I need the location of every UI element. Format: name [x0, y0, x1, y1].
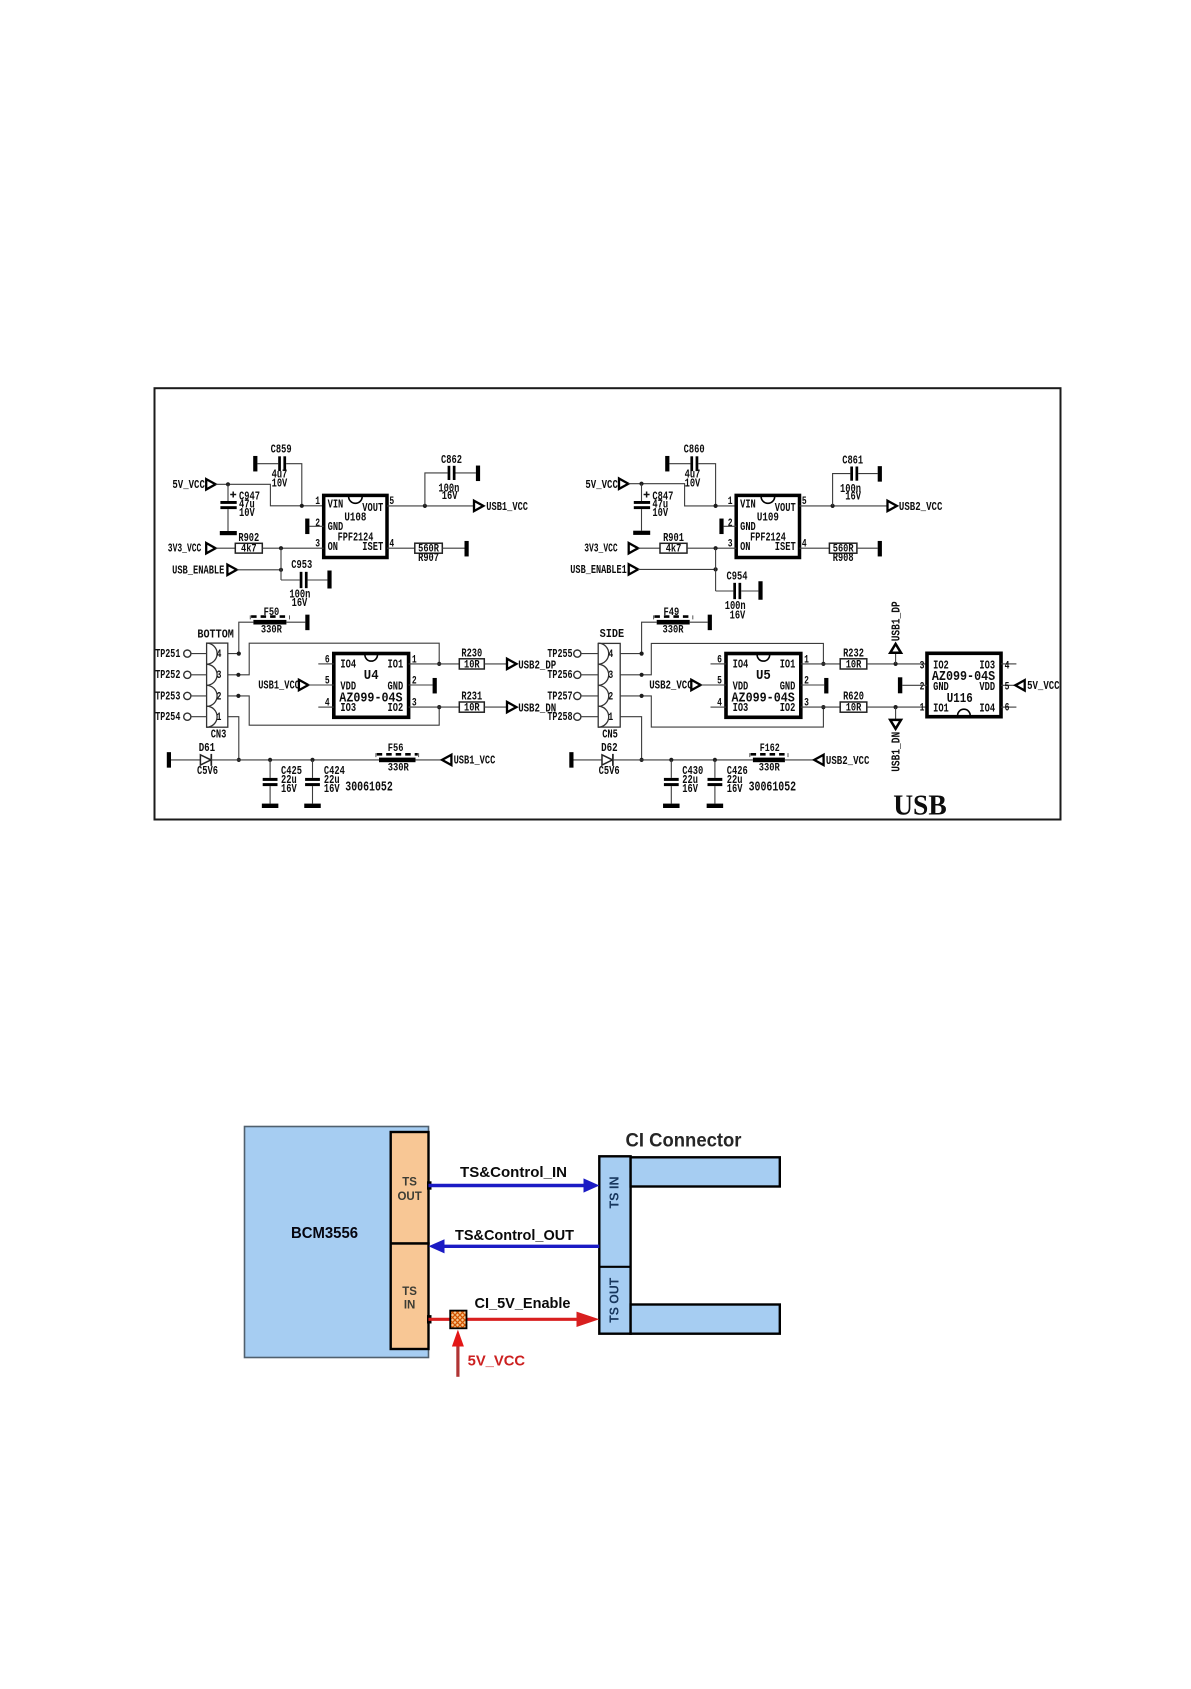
block BCM3556	[245, 1127, 429, 1358]
wire node to C954	[715, 548, 717, 591]
ground at D61 anode	[167, 752, 171, 768]
svg-text:3: 3	[608, 670, 613, 682]
ground for U4 pin 2	[409, 684, 433, 686]
output port USB1_VCC (regulator)	[474, 501, 483, 511]
svg-text:2: 2	[804, 676, 809, 688]
svg-text:USB2_VCC: USB2_VCC	[649, 679, 693, 693]
wire U5 IO2 to R620	[801, 706, 840, 708]
svg-text:16V: 16V	[727, 782, 743, 796]
svg-text:30061052: 30061052	[345, 780, 393, 796]
arrow port USB1_DN (down)	[890, 720, 901, 729]
capacitor C860 4u7 10V	[665, 456, 669, 472]
svg-text:6: 6	[717, 654, 722, 666]
svg-text:TS&Control_IN: TS&Control_IN	[460, 1164, 567, 1181]
pin stub 6 (U116 IO4)	[1001, 706, 1016, 708]
CI connector vertical bar	[599, 1156, 630, 1333]
wire CN5 pin 3 to U5 IO1 net (USB D+ loop)	[620, 643, 823, 674]
svg-text:2: 2	[315, 518, 320, 530]
svg-text:ON: ON	[740, 540, 750, 554]
svg-text:10V: 10V	[272, 477, 288, 491]
svg-text:C5V6: C5V6	[197, 765, 218, 778]
ground for U108 pin 2	[305, 519, 309, 535]
svg-text:330R: 330R	[663, 624, 684, 636]
svg-text:10V: 10V	[685, 477, 701, 491]
svg-text:2: 2	[920, 682, 925, 694]
junction node VOUT / C862	[423, 504, 427, 508]
svg-text:C860: C860	[684, 443, 705, 457]
pin number 5 (U116 VDD)	[1001, 684, 1015, 686]
svg-text:5V_VCC: 5V_VCC	[585, 478, 618, 492]
junction node USB_ENABLE / C953	[279, 568, 283, 572]
svg-text:C954: C954	[727, 570, 748, 584]
wire R908 to ground	[857, 547, 878, 549]
wire CN5 pin 4 to fuse F49	[620, 622, 657, 653]
svg-text:2: 2	[412, 676, 417, 688]
svg-text:TP257: TP257	[547, 689, 572, 703]
svg-text:5V_VCC: 5V_VCC	[1027, 679, 1060, 693]
svg-text:3V3_VCC: 3V3_VCC	[168, 542, 202, 556]
wire CI_5V_Enable (red)	[429, 1318, 579, 1321]
svg-text:4: 4	[717, 698, 722, 710]
svg-text:4k7: 4k7	[666, 544, 682, 556]
output port USB2_VCC (regulator)	[888, 501, 897, 511]
svg-text:16V: 16V	[682, 782, 698, 796]
junction node U5 IO2 / R620	[821, 705, 825, 709]
svg-text:6: 6	[325, 654, 330, 666]
input port USB2_VCC (rail)	[814, 755, 823, 765]
svg-text:IO1: IO1	[388, 658, 404, 672]
svg-text:3V3_VCC: 3V3_VCC	[584, 542, 618, 556]
svg-text:IO4: IO4	[340, 658, 356, 672]
svg-text:TP258: TP258	[547, 710, 572, 724]
capacitor C954 100n 16V	[716, 590, 734, 592]
junction node U5 IO1 / R232	[821, 662, 825, 666]
wire CN3 pin 1 to D61 rail	[228, 717, 239, 760]
svg-text:30061052: 30061052	[749, 780, 797, 796]
wire CN3 pin 2 to U4 IO2 net (USB D- loop)	[228, 696, 439, 725]
svg-text:ON: ON	[328, 540, 338, 554]
svg-text:C953: C953	[291, 558, 312, 572]
wire CN5 pin 1 to D62 rail	[620, 717, 641, 760]
pin stub 4 (U5 IO3)	[711, 706, 727, 708]
svg-text:10R: 10R	[846, 703, 862, 715]
ground at D62 anode	[569, 752, 573, 768]
CI connector bar divider	[599, 1266, 630, 1268]
wire F56 to USB1_VCC port	[416, 759, 443, 761]
block TS OUT port of BCM3556	[391, 1132, 429, 1244]
svg-text:USB_ENABLE1: USB_ENABLE1	[570, 563, 627, 577]
svg-text:CN3: CN3	[211, 727, 227, 741]
svg-text:16V: 16V	[442, 489, 458, 503]
pin stub 4 (U4 IO3)	[318, 706, 334, 708]
svg-text:16V: 16V	[845, 490, 861, 504]
ground for U5 pin 2	[801, 684, 824, 686]
capacitor C426 22u 16V	[713, 758, 717, 762]
junction node CN3 pin 4	[237, 652, 241, 656]
svg-text:4: 4	[1005, 661, 1010, 673]
wire 3V3_VCC to R902	[216, 547, 236, 549]
wire R232 to U116 pin 3	[867, 663, 927, 665]
junction node ON / enable (right)	[714, 546, 718, 550]
connector CN5 (USB side)	[598, 643, 620, 727]
pin nub TS OUT (BCM side)	[427, 1181, 432, 1189]
wire CN3 pin 4 to fuse F50	[228, 622, 254, 653]
wire junction to USB1_DP arrow	[895, 653, 897, 664]
svg-text:16V: 16V	[730, 609, 746, 623]
junction node 5V_VCC / C847	[639, 482, 643, 486]
ground for U116 pin 2	[898, 677, 902, 693]
svg-text:2: 2	[217, 691, 222, 703]
capacitor C862 100n 16V	[425, 473, 448, 506]
svg-text:10R: 10R	[846, 659, 862, 671]
svg-text:IO4: IO4	[979, 701, 995, 715]
svg-text:TS&Control_OUT: TS&Control_OUT	[455, 1227, 574, 1244]
svg-text:ISET: ISET	[362, 540, 383, 554]
svg-text:U108: U108	[344, 510, 366, 524]
svg-text:D62: D62	[601, 742, 618, 755]
svg-text:16V: 16V	[292, 596, 308, 610]
svg-text:1: 1	[608, 712, 613, 724]
svg-text:3: 3	[412, 698, 417, 710]
fuse F50 330R	[253, 620, 286, 625]
svg-text:USB1_DP: USB1_DP	[889, 601, 903, 641]
wire D62 rail to fuse F162	[613, 759, 753, 761]
resistor R901 4k7	[660, 543, 687, 553]
jumper pad (hatched square)	[450, 1311, 466, 1329]
svg-text:TP254: TP254	[155, 710, 181, 724]
resistor R907 560R	[415, 543, 443, 553]
svg-text:TP253: TP253	[155, 689, 180, 703]
svg-text:330R: 330R	[759, 762, 780, 774]
svg-text:D61: D61	[199, 742, 216, 755]
svg-text:10V: 10V	[239, 506, 255, 520]
ground after F50	[305, 615, 309, 631]
svg-text:IO1: IO1	[780, 658, 796, 672]
resistor R908 560R	[829, 543, 857, 553]
svg-text:3: 3	[920, 661, 925, 673]
resistor R902 4k7	[235, 543, 262, 553]
ESD array U5 AZ099-04S	[726, 654, 801, 718]
svg-text:4k7: 4k7	[241, 544, 257, 556]
wire U108 ISET to R907	[387, 547, 415, 549]
pin nub TS IN (BCM side)	[427, 1315, 432, 1323]
svg-text:ISET: ISET	[775, 540, 796, 554]
svg-text:R901: R901	[663, 532, 684, 545]
capacitor C947 47u 10V	[227, 484, 229, 501]
svg-text:5V_VCC: 5V_VCC	[172, 478, 205, 492]
junction node rail / CN3 pin 1	[237, 758, 241, 762]
ground after R908	[878, 541, 882, 557]
wire R901 to U109 ON	[687, 547, 736, 549]
arrow TS&Control_OUT	[443, 1245, 599, 1248]
wire CN3 pin 3 to U4 IO1 net (USB D+ loop)	[228, 643, 439, 675]
wire U108 VOUT to USB1_VCC port	[387, 505, 474, 507]
svg-text:5: 5	[1005, 682, 1010, 694]
arrow TS&Control_IN	[429, 1184, 586, 1187]
svg-text:3: 3	[217, 670, 222, 682]
junction node USB_ENABLE1 / C954	[714, 567, 718, 571]
svg-text:16V: 16V	[281, 782, 297, 796]
resistor R230 10R	[459, 659, 484, 669]
wire U109 VOUT to USB2_VCC port	[800, 505, 888, 507]
svg-text:330R: 330R	[388, 762, 409, 774]
capacitor C953 100n 16V	[281, 579, 300, 581]
junction node CN3 pin 2	[236, 694, 240, 698]
svg-text:IO2: IO2	[388, 701, 404, 715]
svg-text:USB_ENABLE: USB_ENABLE	[172, 564, 224, 578]
svg-text:6: 6	[1005, 702, 1010, 714]
svg-text:F162: F162	[760, 743, 780, 755]
junction node VOUT / C861	[831, 504, 835, 508]
svg-text:U116: U116	[947, 691, 973, 707]
capacitor C430 22u 16V	[669, 758, 673, 762]
svg-text:VIN: VIN	[740, 497, 756, 511]
svg-text:1: 1	[920, 702, 925, 714]
svg-text:USB1_VCC: USB1_VCC	[258, 679, 300, 693]
svg-text:4: 4	[608, 649, 613, 661]
svg-text:F56: F56	[388, 743, 404, 755]
ground after F49	[708, 615, 712, 631]
output port USB2_DP	[507, 659, 516, 669]
capacitor C861 100n 16V	[833, 474, 851, 506]
ground for U109 pin 2	[719, 519, 723, 535]
junction node 5V_VCC / C947	[226, 482, 230, 486]
svg-text:10R: 10R	[464, 659, 480, 671]
capacitor C424 22u 16V	[310, 758, 314, 762]
CI connector bottom arm	[631, 1305, 780, 1334]
svg-text:1: 1	[315, 496, 320, 508]
svg-text:VDD: VDD	[979, 680, 995, 694]
svg-text:F50: F50	[264, 607, 280, 619]
svg-text:1: 1	[728, 496, 733, 508]
wire F162 to USB2_VCC port	[785, 759, 814, 761]
ESD array U116 AZ099-04S	[927, 653, 1001, 716]
input port USB1_VCC (rail)	[442, 755, 451, 765]
capacitor C859 4u7 10V	[253, 456, 257, 472]
wire node to C953	[280, 548, 282, 580]
svg-text:1: 1	[804, 654, 809, 666]
fuse F56 330R	[379, 758, 416, 763]
svg-text:USB1_DN: USB1_DN	[889, 732, 903, 772]
wire F50 to ground	[286, 621, 305, 623]
svg-text:C862: C862	[441, 453, 462, 467]
svg-text:TS IN: TS IN	[608, 1177, 622, 1209]
wire U4 IO1 to R230	[409, 663, 460, 665]
junction node C860 / VIN	[714, 504, 718, 508]
svg-text:USB1_VCC: USB1_VCC	[486, 500, 528, 514]
svg-text:C5V6: C5V6	[599, 765, 620, 778]
svg-text:3: 3	[804, 698, 809, 710]
svg-text:CN5: CN5	[602, 727, 618, 741]
svg-text:5V_VCC: 5V_VCC	[468, 1352, 526, 1369]
wire ground to D62	[574, 759, 603, 761]
wire D61 rail to fuse F56	[211, 759, 379, 761]
fuse F49 330R	[657, 620, 690, 625]
svg-text:BCM3556: BCM3556	[291, 1225, 358, 1242]
wire U4 IO2 to R231	[409, 706, 460, 708]
svg-text:U5: U5	[756, 668, 771, 684]
svg-text:IO2: IO2	[780, 701, 796, 715]
arrow 5V_VCC (red vertical)	[456, 1346, 459, 1377]
IC U108 FPF2124 load switch	[324, 495, 387, 557]
ESD array U4 AZ099-04S	[334, 654, 409, 718]
svg-text:USB2_VCC: USB2_VCC	[826, 754, 870, 768]
junction node IO2 / R231	[437, 705, 441, 709]
junction node CN5 pin 3	[640, 673, 644, 677]
svg-text:R902: R902	[238, 532, 259, 545]
resistor R232 10R	[840, 659, 867, 669]
svg-text:5: 5	[717, 676, 722, 688]
svg-text:4: 4	[325, 698, 330, 710]
svg-text:IN: IN	[404, 1300, 416, 1312]
svg-text:R230: R230	[461, 648, 482, 661]
svg-text:TP256: TP256	[547, 668, 572, 682]
ground after R907	[465, 541, 469, 557]
zener diode D61 C5V6	[200, 755, 211, 765]
svg-text:4: 4	[217, 649, 222, 661]
svg-text:F49: F49	[664, 607, 680, 619]
svg-text:USB2_VCC: USB2_VCC	[899, 500, 943, 514]
svg-text:CI_5V_Enable: CI_5V_Enable	[475, 1295, 571, 1312]
svg-text:R620: R620	[843, 691, 864, 704]
CI connector top arm	[631, 1157, 780, 1186]
wire U5 IO1 to R232	[801, 663, 840, 665]
svg-text:IO1: IO1	[933, 701, 949, 715]
svg-text:OUT: OUT	[397, 1191, 421, 1203]
pin stub 6 (U4 IO4)	[318, 663, 334, 665]
arrow port USB1_DP (up)	[890, 644, 901, 653]
wire U109 ISET to R908	[800, 547, 830, 549]
junction node rail / CN5 pin 1	[640, 758, 644, 762]
wire ground to D61	[171, 759, 200, 761]
wire 5V_VCC to U108 VIN	[216, 484, 324, 506]
junction node C859 / VIN	[300, 504, 304, 508]
svg-text:2: 2	[728, 518, 733, 530]
junction node R232 / USB1_DP	[894, 662, 898, 666]
schematic frame	[155, 388, 1061, 819]
block TS IN port of BCM3556	[391, 1244, 429, 1350]
svg-text:10V: 10V	[652, 506, 668, 520]
svg-text:IO4: IO4	[733, 658, 749, 672]
svg-text:TP252: TP252	[155, 668, 180, 682]
wire F49 to ground	[690, 621, 708, 623]
wire 5V_VCC to U109 VIN	[628, 484, 736, 506]
svg-text:U4: U4	[364, 668, 379, 684]
svg-text:IO3: IO3	[733, 701, 749, 715]
connector CN3 (USB bottom)	[207, 643, 228, 727]
wire R907 to ground	[442, 547, 464, 549]
wire R902 to U108 ON	[262, 547, 323, 549]
svg-text:C859: C859	[271, 443, 292, 457]
svg-text:R231: R231	[461, 691, 482, 704]
wire R230 to USB2_DP port	[484, 663, 507, 665]
svg-text:TP255: TP255	[547, 647, 572, 661]
svg-text:1: 1	[217, 712, 222, 724]
svg-text:IO3: IO3	[340, 701, 356, 715]
wire R231 to USB2_DN port	[484, 706, 507, 708]
IC U109 FPF2124 load switch	[736, 495, 799, 557]
junction node ON / enable	[279, 546, 283, 550]
wire CN5 pin 2 to U5 IO2 net (USB D- loop)	[620, 696, 823, 727]
wire 3V3_VCC to R901	[638, 547, 660, 549]
output port USB2_DN	[507, 702, 516, 712]
svg-text:TP251: TP251	[155, 647, 180, 661]
junction node IO1 / R230	[437, 662, 441, 666]
svg-text:USB1_VCC: USB1_VCC	[454, 754, 496, 768]
pin stub 4 (U116 IO3)	[1001, 663, 1016, 665]
resistor R231 10R	[459, 702, 484, 712]
svg-text:VIN: VIN	[328, 497, 344, 511]
wire R620 to U116 pin 1	[867, 706, 927, 708]
fuse F162 330R	[753, 758, 785, 763]
svg-text:BOTTOM: BOTTOM	[197, 627, 234, 641]
power port 5V_VCC to U116 VDD	[1015, 680, 1024, 690]
wire junction to USB1_DN arrow	[895, 707, 897, 720]
svg-text:TS: TS	[402, 1177, 417, 1189]
svg-text:USB: USB	[893, 790, 947, 821]
svg-text:330R: 330R	[261, 624, 282, 636]
wire USB_ENABLE to node	[237, 569, 281, 571]
svg-text:CI Connector: CI Connector	[626, 1130, 742, 1152]
svg-text:R907: R907	[418, 552, 439, 565]
svg-text:1: 1	[412, 654, 417, 666]
junction node CN5 pin 4	[640, 652, 644, 656]
junction node CN3 pin 3	[236, 673, 240, 677]
resistor R620 10R	[840, 702, 867, 712]
svg-text:TS OUT: TS OUT	[608, 1277, 622, 1322]
zener diode D62 C5V6	[602, 755, 613, 765]
svg-text:SIDE: SIDE	[600, 627, 625, 641]
svg-text:16V: 16V	[324, 782, 340, 796]
svg-text:10R: 10R	[464, 703, 480, 715]
svg-text:2: 2	[608, 691, 613, 703]
junction node CN5 pin 2	[640, 694, 644, 698]
svg-text:TS: TS	[402, 1286, 417, 1298]
capacitor C847 47u 10V	[641, 484, 643, 501]
svg-text:R232: R232	[843, 648, 864, 661]
svg-text:C861: C861	[842, 454, 863, 468]
svg-text:R908: R908	[833, 552, 854, 565]
junction node R620 / USB1_DN	[894, 705, 898, 709]
capacitor C425 22u 16V	[268, 758, 272, 762]
svg-text:U109: U109	[757, 510, 779, 524]
pin stub 6 (U5 IO4)	[711, 663, 727, 665]
svg-text:5: 5	[325, 676, 330, 688]
wire USB_ENABLE1 to node	[638, 568, 716, 570]
